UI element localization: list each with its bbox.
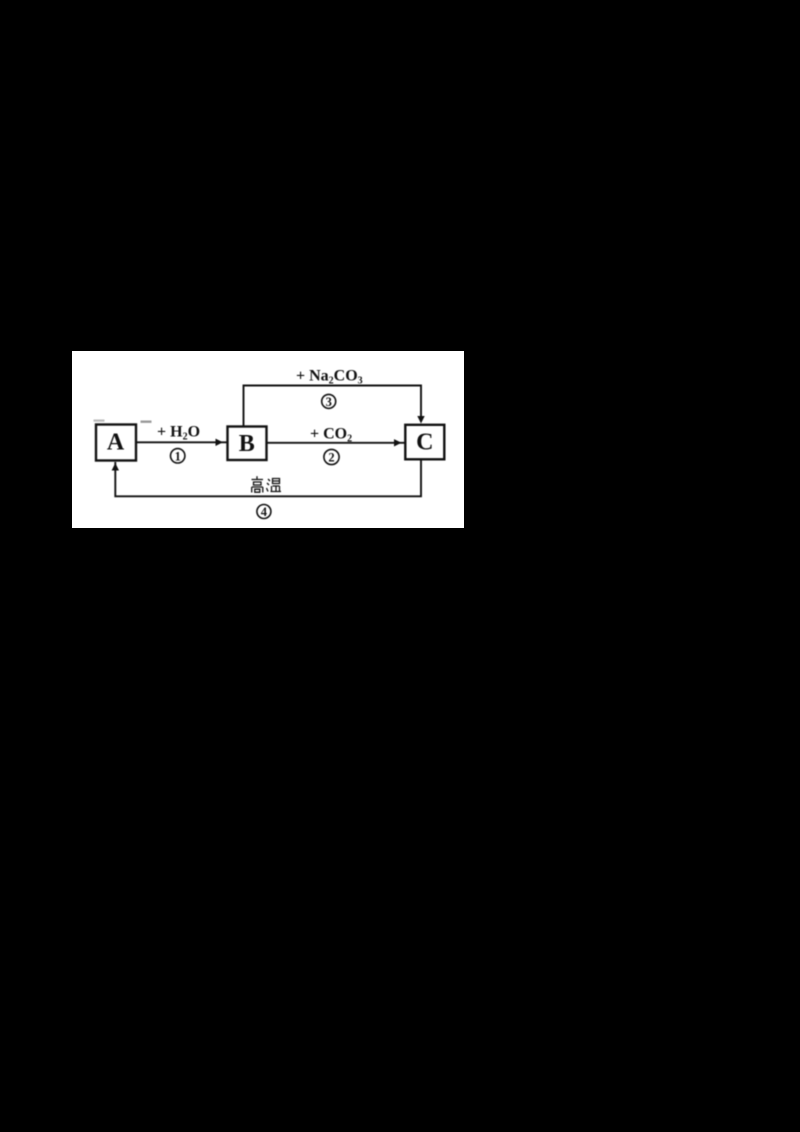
wire B to C <box>267 442 406 444</box>
svg-text:+ H2O: + H2O <box>157 424 200 443</box>
label gaowen (high temperature) <box>252 476 282 492</box>
wire C bottom to A (path 4) <box>115 459 421 496</box>
arrowhead into C <box>394 439 402 446</box>
arrowhead into B <box>216 439 224 446</box>
label circled 1 <box>171 449 185 464</box>
label circled 3 <box>322 394 336 409</box>
arrowhead into C top <box>417 416 424 424</box>
box A <box>96 425 136 461</box>
box B <box>228 427 267 461</box>
arrowhead into A bottom <box>112 463 119 471</box>
scan smudge left of +H2O label <box>141 421 152 423</box>
svg-text:A: A <box>107 430 125 456</box>
wire B top to C (path 3) <box>244 386 422 427</box>
svg-text:3: 3 <box>326 395 332 409</box>
svg-text:1: 1 <box>175 449 181 463</box>
svg-text:4: 4 <box>261 505 268 519</box>
char wen <box>267 479 271 492</box>
svg-text:B: B <box>239 431 255 457</box>
box C <box>405 425 444 460</box>
scan smudge above box A <box>94 420 105 422</box>
svg-text:+ CO2: + CO2 <box>310 426 352 445</box>
label circled 4 <box>257 505 271 520</box>
wire A to B <box>136 441 228 443</box>
label circled 2 <box>324 449 339 464</box>
char gao <box>256 476 258 479</box>
svg-text:C: C <box>416 430 433 456</box>
svg-text:2: 2 <box>328 451 334 465</box>
svg-text:+ Na2CO3: + Na2CO3 <box>296 368 363 387</box>
